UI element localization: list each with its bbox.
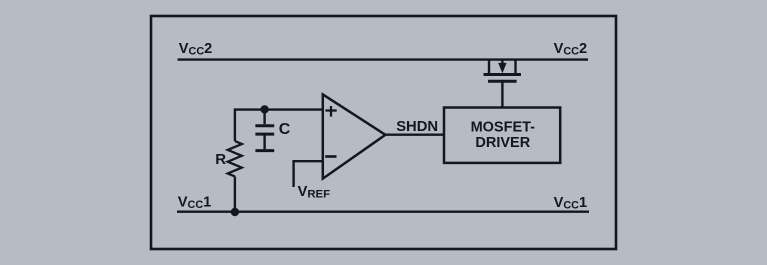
wire: resistor top lead xyxy=(234,108,236,141)
capacitor C top lead xyxy=(263,109,265,124)
net VCC2 rail (top wire) xyxy=(178,58,589,60)
resistor R body xyxy=(228,141,242,176)
wire: resistor bottom lead to VCC1 xyxy=(234,176,236,212)
junction dot: R to VCC1 rail xyxy=(231,208,239,216)
svg-text:VCC1: VCC1 xyxy=(554,195,587,212)
svg-text:VCC2: VCC2 xyxy=(179,41,212,58)
transistor Q1 PMOS: channel bar xyxy=(484,73,522,76)
svg-text:VCC1: VCC1 xyxy=(178,194,211,211)
transistor Q1 PMOS: gate bar xyxy=(488,80,517,83)
svg-text:R: R xyxy=(215,151,226,168)
wire: inverting input to VREF xyxy=(294,161,323,187)
svg-text:VCC2: VCC2 xyxy=(554,41,587,58)
op-amp U1 triangle xyxy=(323,94,386,178)
net VCC1 rail (bottom wire) xyxy=(177,210,589,212)
IC boundary box xyxy=(151,16,616,249)
svg-text:DRIVER: DRIVER xyxy=(475,135,530,151)
wire: op-amp output SHDN to driver box xyxy=(385,133,444,135)
transistor Q1 PMOS: bulk arrow shaft xyxy=(501,60,503,65)
MOSFET-DRIVER block U2 xyxy=(444,108,560,163)
svg-text:SHDN: SHDN xyxy=(396,119,438,135)
transistor Q1 PMOS: source stub xyxy=(514,60,516,75)
capacitor C bottom lead xyxy=(263,136,265,150)
svg-text:C: C xyxy=(279,121,291,138)
transistor Q1 PMOS: drain stub xyxy=(488,60,490,75)
op-amp - input marker xyxy=(325,155,336,158)
svg-text:MOSFET-: MOSFET- xyxy=(471,120,536,136)
capacitor C bottom termination bar xyxy=(255,149,274,152)
svg-text:VREF: VREF xyxy=(298,184,331,201)
junction dot: +input/C node xyxy=(260,105,268,113)
wire: + input node (R/C top to op-amp +) xyxy=(235,108,322,110)
transistor Q1 PMOS: bulk arrow head xyxy=(498,63,506,73)
op-amp + input marker xyxy=(325,109,336,111)
capacitor C plates xyxy=(255,124,274,127)
wire: driver output to MOSFET gate xyxy=(501,82,503,108)
